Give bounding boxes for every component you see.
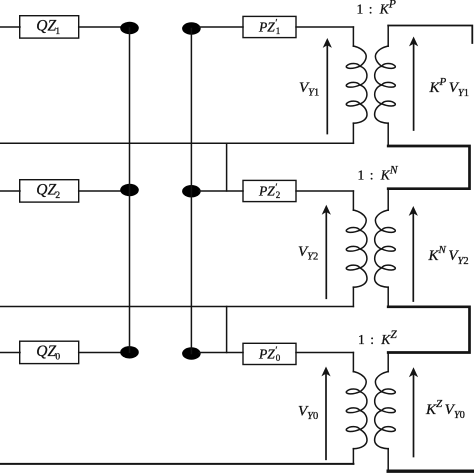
wire PZ'1 to T1 primary — [296, 26, 353, 28]
wire T1 secondary output (top terminal) — [388, 26, 472, 44]
transformer T0 secondary winding — [387, 353, 389, 372]
wire T1 primary return — [0, 142, 353, 144]
wire QZ1 to node A1 — [79, 26, 121, 28]
impedance PZ'2 — [243, 180, 296, 201]
wire node B1 to PZ1 — [199, 26, 243, 28]
resistor QZ1 — [20, 16, 79, 38]
arrow VY2 — [325, 211, 327, 298]
wire QZ0 to node A0 — [79, 352, 121, 354]
wire row0 input — [0, 352, 20, 354]
transformer T1 secondary winding — [387, 26, 389, 47]
junction node B2 — [182, 185, 201, 197]
bus wire A (phase a vertical) — [129, 28, 131, 352]
tie wire return2 to row3 node — [226, 307, 228, 353]
transformer T1 primary winding — [352, 27, 354, 46]
svg-text:PZ′1: PZ′1 — [258, 18, 280, 36]
wire PZ'2 to T2 primary — [296, 190, 353, 192]
svg-text:PZ′2: PZ′2 — [258, 182, 280, 200]
wire PZ'0 to T0 primary — [296, 352, 353, 354]
impedance PZ'0 — [243, 343, 296, 364]
wire T0 primary return — [0, 463, 353, 465]
arrow K^P VY1 — [413, 43, 415, 131]
transformer T2 secondary winding — [387, 189, 389, 211]
junction node B0 — [182, 347, 201, 359]
junction node A2 — [120, 184, 139, 196]
impedance PZ'1 — [243, 16, 296, 37]
resistor QZ2 — [20, 180, 79, 202]
bus wire B (phase b vertical) — [190, 29, 192, 354]
transformer T0 primary winding — [352, 353, 354, 372]
wire node B2 to PZ2 — [199, 190, 243, 192]
junction node A0 — [120, 346, 139, 358]
tie wire return1 to row2 node — [226, 143, 228, 191]
resistor QZ0 — [20, 341, 79, 363]
wire series link T2 secondary to T0 secondary — [388, 307, 469, 353]
arrow K^N VY2 — [412, 212, 414, 301]
wire row2 input — [0, 190, 20, 192]
junction node A1 — [120, 22, 139, 34]
wire node B0 to PZ0 — [199, 352, 243, 354]
wire series link T1 secondary to T2 secondary — [388, 146, 469, 189]
transformer T2 primary winding — [352, 191, 354, 210]
wire T0 secondary output (bottom terminal) — [388, 470, 474, 473]
arrow VY1 — [326, 44, 328, 134]
arrow K^Z VY0 — [413, 373, 415, 456]
wire row1 input — [0, 26, 20, 28]
arrow VY0 — [325, 373, 327, 460]
wire T2 primary return — [0, 306, 353, 308]
junction node B1 — [182, 22, 201, 34]
wire QZ2 to node A2 — [79, 190, 121, 192]
